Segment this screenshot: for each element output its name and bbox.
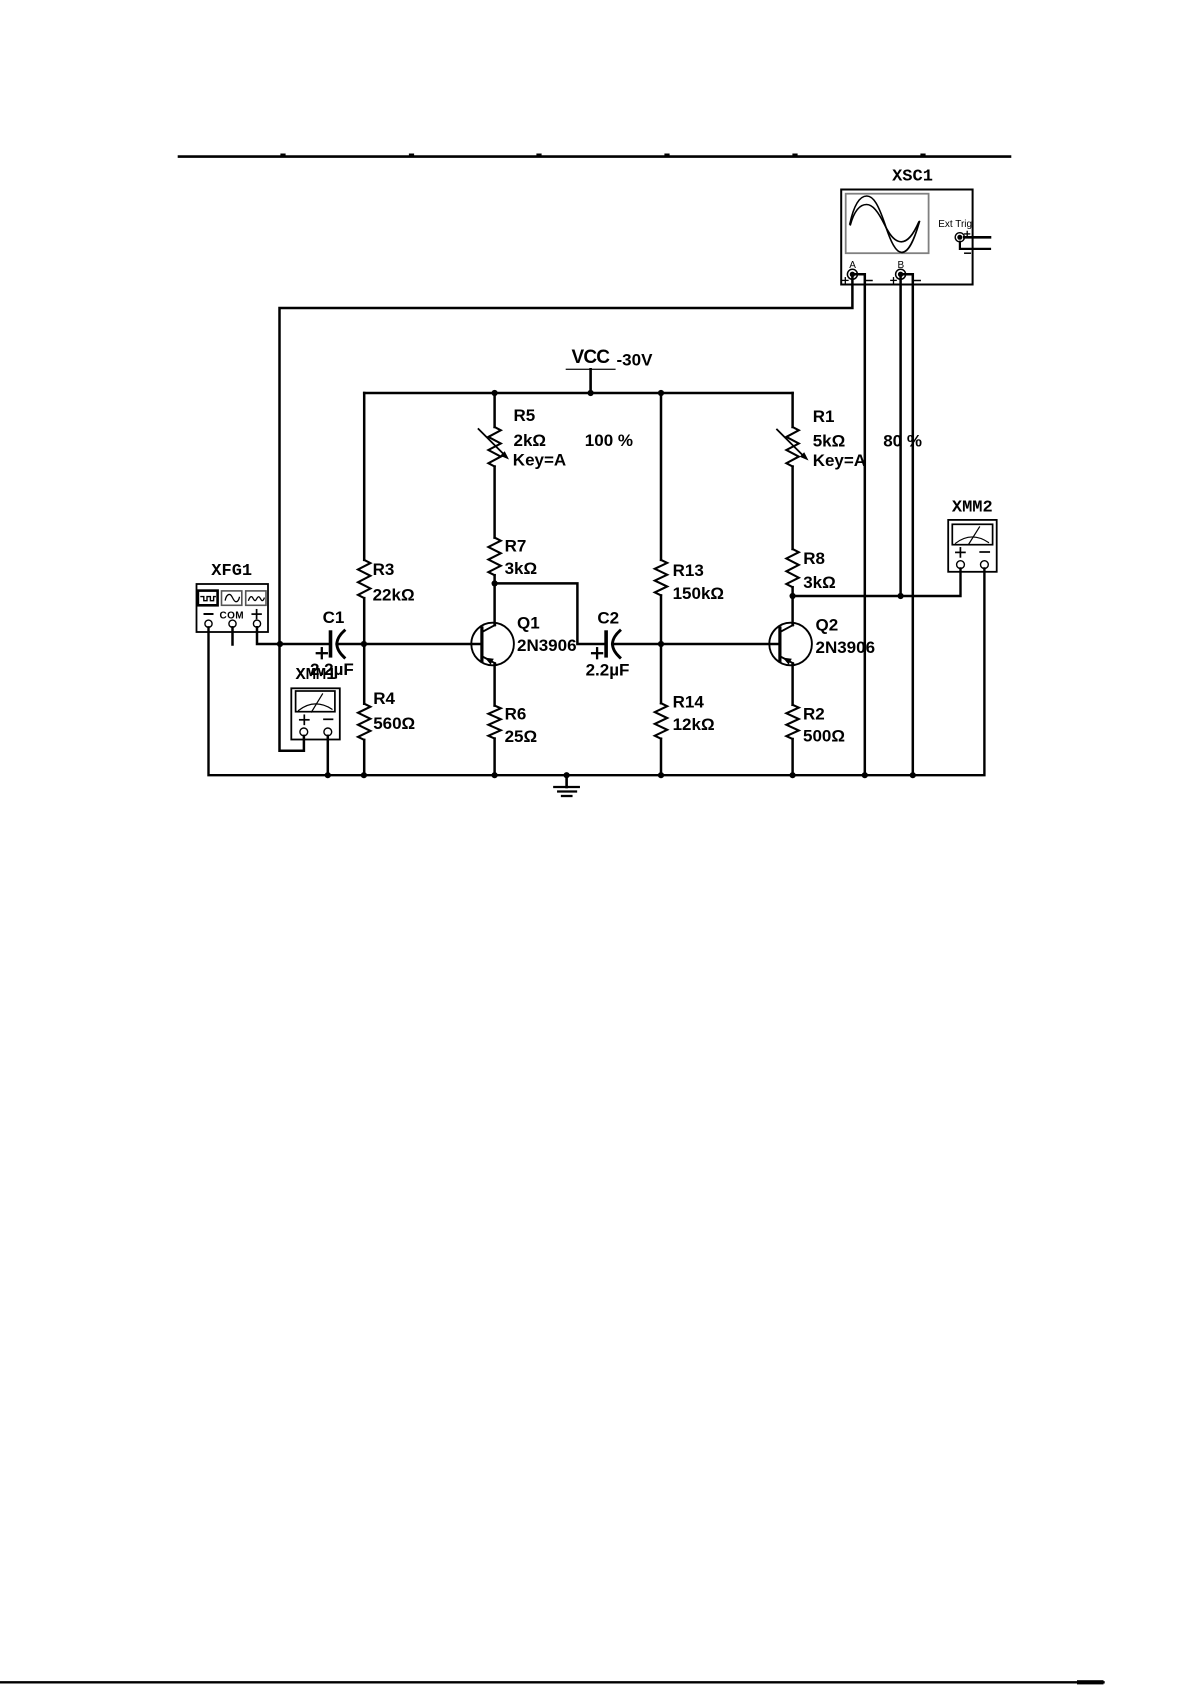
VCC value -30V [617, 351, 654, 370]
wire XMM1 minus to ground bus [327, 736, 330, 775]
wire R7 to Q1 collector node [493, 575, 496, 583]
wire XMM2 plus to Q2 collector node [793, 569, 961, 597]
svg-text:150kΩ: 150kΩ [673, 584, 724, 603]
node Q2 collector [790, 593, 796, 599]
node scope B- ground [910, 772, 916, 778]
wire R8 to Q2 collector node [791, 587, 794, 596]
node C1-R3R4 [361, 641, 367, 647]
svg-text:2N3906: 2N3906 [816, 638, 876, 657]
power supply VCC [566, 347, 615, 369]
oscilloscope XSC1 screen [846, 194, 929, 254]
potentiometer R1 [777, 407, 866, 470]
node scope B+ tap [898, 593, 904, 599]
wire input node to C1 [280, 643, 329, 646]
XSC1 channel A terminal [843, 260, 872, 283]
wire scope A+ to circuit input node [280, 274, 853, 751]
wire R5 to R7 [493, 467, 496, 538]
wire ground bus [209, 569, 985, 776]
wire R6 to ground bus [493, 739, 496, 776]
svg-text:XFG1: XFG1 [211, 562, 252, 581]
node scope A- ground [862, 772, 868, 778]
node ground tap [564, 772, 570, 778]
node R6 ground [492, 772, 498, 778]
wire Q1 collector node to C2 [495, 583, 605, 644]
svg-text:C2: C2 [597, 609, 619, 628]
svg-text:R8: R8 [803, 549, 825, 568]
svg-text:C1: C1 [323, 608, 345, 627]
wire C1 to Q1 base node [337, 643, 364, 646]
svg-text:R3: R3 [373, 560, 395, 579]
svg-text:R1: R1 [813, 407, 835, 426]
wire XSC1 Ext Trig plus stub [964, 236, 990, 239]
XSC1 Ext Trig label [938, 219, 972, 230]
wire R2 to ground bus [791, 739, 794, 775]
transistor Q1 2N3906 [471, 583, 576, 705]
node input junction [277, 641, 283, 647]
multimeter XMM2 body [948, 520, 997, 572]
svg-text:560Ω: 560Ω [373, 714, 415, 733]
svg-text:XMM2: XMM2 [952, 499, 993, 518]
R1 setting 80 % [883, 431, 922, 450]
node R4 ground [361, 772, 367, 778]
wire Q2 base node to R14 [660, 644, 663, 703]
transistor Q2 2N3906 [769, 596, 875, 705]
capacitor C1 2.2uF [317, 608, 345, 658]
R5 setting 100 % [585, 431, 633, 450]
svg-text:R7: R7 [505, 537, 527, 556]
node XMM1- ground [325, 772, 331, 778]
wire R14 to ground bus [660, 739, 663, 776]
wire VCC stub to rail [589, 369, 592, 393]
svg-text:100 %: 100 % [585, 431, 633, 450]
multimeter XMM1 body [291, 688, 340, 739]
svg-text:2.2µF: 2.2µF [586, 661, 630, 680]
function generator XFG1 body [197, 584, 269, 632]
C1 value 2.2uF [310, 660, 354, 679]
oscilloscope XSC1 body [841, 190, 972, 285]
resistor R13 [655, 560, 724, 603]
node rail-R13 [658, 390, 664, 396]
svg-text:VCC: VCC [572, 347, 611, 368]
svg-text:Q2: Q2 [816, 616, 839, 635]
wire Q2 base [661, 643, 780, 646]
multimeter XMM1 label (overlapped) [296, 666, 337, 685]
svg-text:Key=A: Key=A [813, 451, 866, 470]
svg-text:2kΩ: 2kΩ [514, 431, 547, 450]
node R2 ground [790, 772, 796, 778]
wire rail to R3 [363, 393, 366, 560]
wire VCC top rail [364, 392, 792, 395]
wire scope A- to ground bus [854, 274, 865, 775]
node R14 ground [658, 772, 664, 778]
svg-text:R5: R5 [514, 406, 536, 425]
resistor R14 [655, 693, 715, 739]
svg-text:R6: R6 [505, 705, 527, 724]
wire scope B+ to Q2 collector node [899, 274, 902, 596]
svg-text:5kΩ: 5kΩ [813, 432, 846, 451]
wire R4 to ground bus [363, 740, 366, 775]
svg-text:3kΩ: 3kΩ [803, 573, 836, 592]
svg-text:-30V: -30V [617, 351, 654, 370]
wire C2 to Q2 base node [612, 643, 661, 646]
svg-text:12kΩ: 12kΩ [673, 715, 715, 734]
svg-text:2.2µF: 2.2µF [310, 660, 354, 679]
resistor R4 [358, 689, 415, 740]
wire scope B- to ground bus [902, 274, 913, 775]
multimeter XMM2 label [952, 499, 993, 518]
wire Q1 base [364, 643, 482, 646]
wire rail to R1 [791, 393, 794, 427]
svg-text:Q1: Q1 [517, 614, 540, 633]
svg-text:R4: R4 [373, 689, 395, 708]
wire rail to R5 [493, 393, 496, 427]
wire XFG1 COM stub [231, 627, 234, 644]
wire rail to R13 [660, 393, 663, 560]
capacitor C2 2.2uF [586, 609, 630, 680]
function generator XFG1 label [211, 562, 252, 581]
svg-text:25Ω: 25Ω [505, 727, 538, 746]
resistor R3 [358, 560, 415, 605]
wire R13 to Q2 base node [660, 595, 663, 644]
XSC1 channel B terminal [891, 260, 920, 283]
resistor R6 [488, 705, 537, 746]
wire R1 to R8 [791, 467, 794, 550]
svg-text:R2: R2 [803, 705, 825, 724]
resistor R7 [488, 537, 537, 579]
ground [554, 775, 579, 796]
svg-text:R13: R13 [673, 561, 704, 580]
svg-text:22kΩ: 22kΩ [373, 585, 415, 604]
potentiometer R5 [479, 406, 567, 469]
wire XFG1 output to input node [257, 627, 280, 644]
svg-text:XSC1: XSC1 [892, 167, 933, 186]
oscilloscope XSC1 label [892, 167, 933, 186]
svg-text:3kΩ: 3kΩ [505, 559, 538, 578]
XSC1 Ext Trig terminal [955, 231, 970, 253]
resistor R2 [786, 705, 845, 746]
svg-text:Key=A: Key=A [513, 450, 566, 469]
resistor R8 [786, 549, 835, 592]
svg-text:2N3906: 2N3906 [517, 636, 577, 655]
svg-text:Ext Trig: Ext Trig [938, 219, 972, 230]
wire XSC1 Ext Trig minus stub [960, 242, 990, 249]
svg-text:R14: R14 [673, 693, 705, 712]
node C2-R13R14 (Q2 base) [658, 641, 664, 647]
node Q1 collector junction [492, 580, 498, 586]
node rail-R5 [492, 390, 498, 396]
svg-text:80 %: 80 % [883, 431, 922, 450]
wire R3 to input node / R4 [363, 598, 366, 704]
svg-text:500Ω: 500Ω [803, 727, 845, 746]
node rail-VCC [588, 390, 594, 396]
